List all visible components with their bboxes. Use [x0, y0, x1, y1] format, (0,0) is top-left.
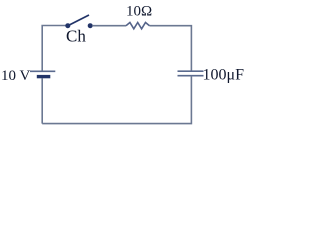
svg-text:Ch: Ch [66, 27, 86, 46]
svg-text:100μF: 100μF [203, 66, 245, 83]
wire switch-to-resistor [92, 25, 126, 27]
svg-text:10Ω: 10Ω [126, 3, 152, 19]
switch Ch [65, 15, 92, 28]
wire capacitor-to-bottom-right [42, 76, 191, 124]
svg-text:10 V: 10 V [1, 68, 30, 84]
wire top-left segment [42, 26, 66, 72]
capacitor C 100uF [178, 71, 204, 76]
wire resistor-to-corner and right side down to capacitor [150, 26, 192, 71]
resistor R 10 ohm [126, 23, 150, 29]
wire bottom-left up to battery [41, 78, 43, 123]
battery 10 V [30, 71, 55, 78]
